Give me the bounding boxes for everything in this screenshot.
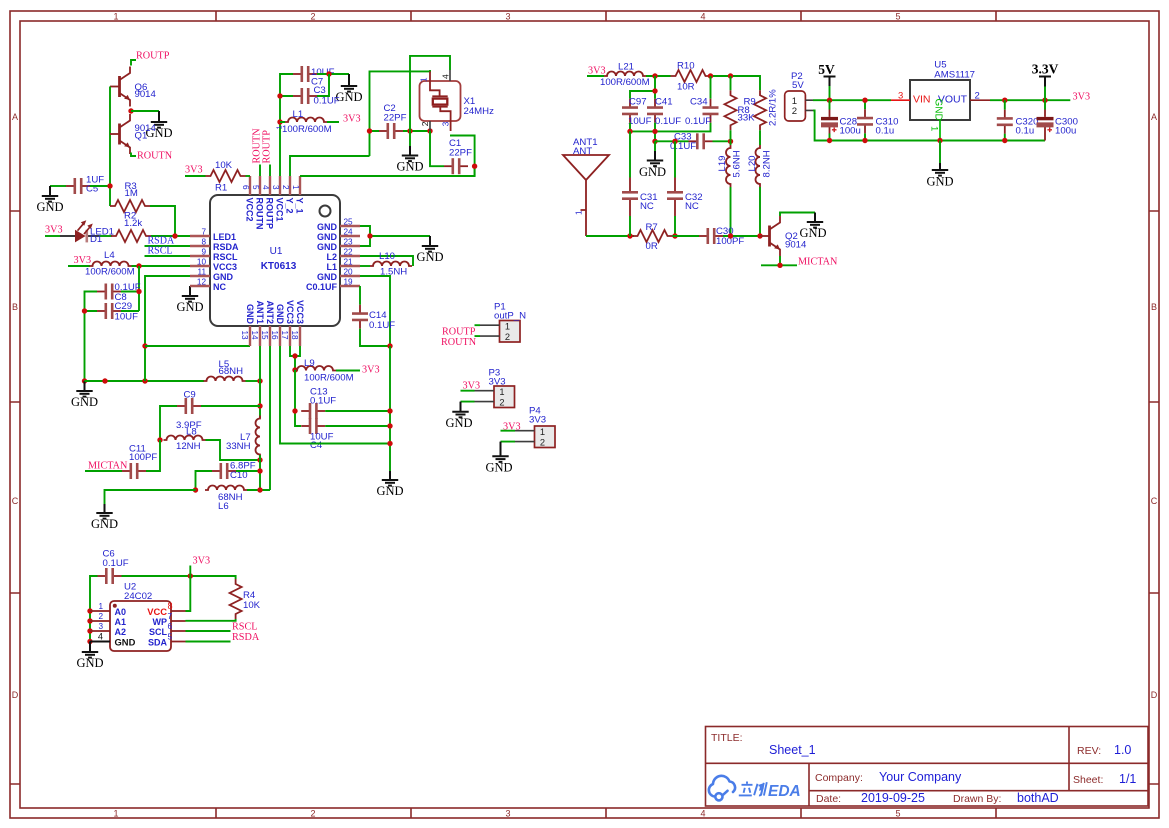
svg-text:100R/600M: 100R/600M bbox=[85, 267, 135, 278]
svg-text:5V: 5V bbox=[818, 62, 835, 77]
ground bbox=[91, 504, 118, 531]
wire L9 junction down to C13/C4 bbox=[295, 370, 301, 426]
resistor R7 0R bbox=[633, 222, 673, 252]
svg-text:NC: NC bbox=[640, 201, 654, 212]
svg-text:GND: GND bbox=[416, 250, 443, 264]
capacitor C9 3.9PF bbox=[176, 390, 202, 432]
wire ANT to R7 row bbox=[586, 235, 634, 237]
svg-text:GND: GND bbox=[76, 656, 103, 670]
svg-text:5: 5 bbox=[895, 12, 900, 22]
node L7 bottom bbox=[257, 457, 262, 462]
node C10 right bbox=[257, 468, 262, 473]
svg-text:ROUTN: ROUTN bbox=[137, 151, 173, 162]
wire L6 right bbox=[247, 489, 270, 491]
svg-text:10K: 10K bbox=[243, 600, 261, 611]
svg-text:GND: GND bbox=[317, 232, 338, 242]
svg-text:4: 4 bbox=[98, 632, 103, 642]
inductor L6 68NH bbox=[205, 486, 247, 513]
wire C32 bottom bbox=[674, 216, 676, 236]
svg-text:33NH: 33NH bbox=[226, 441, 251, 452]
resistor R8 33K bbox=[725, 90, 756, 130]
capacitor C310 0.1u bbox=[857, 100, 898, 140]
ground U2 bbox=[76, 642, 103, 671]
capacitor C3 0.1UF bbox=[293, 85, 340, 107]
svg-text:ANT2: ANT2 bbox=[265, 300, 275, 324]
wire right rail down bbox=[389, 346, 391, 471]
svg-text:6: 6 bbox=[241, 185, 250, 190]
inductor L21 100R/600M bbox=[600, 62, 650, 89]
wire P2 pin2 to gnd rail bbox=[813, 110, 1045, 140]
ground bbox=[335, 74, 362, 104]
svg-text:3V3: 3V3 bbox=[1073, 92, 1091, 103]
wire C5 right bbox=[90, 185, 110, 187]
capacitor C30 100PF bbox=[699, 226, 744, 247]
svg-text:10UF: 10UF bbox=[628, 116, 652, 127]
svg-text:C3: C3 bbox=[314, 85, 326, 96]
svg-text:GND: GND bbox=[317, 272, 338, 282]
logo 立创EDA bbox=[709, 776, 735, 801]
power symbol 5V bbox=[818, 62, 835, 100]
net label ROUTN (P1) bbox=[441, 337, 477, 348]
svg-text:L2: L2 bbox=[326, 252, 337, 262]
svg-text:SCL: SCL bbox=[149, 627, 168, 637]
node C13 left bbox=[292, 408, 297, 413]
inductor L5 68NH bbox=[204, 359, 246, 381]
wire C2 row bbox=[370, 130, 431, 132]
node C41 bottom bbox=[652, 129, 657, 134]
svg-text:RSCL: RSCL bbox=[148, 246, 173, 257]
svg-text:10K: 10K bbox=[215, 160, 233, 171]
svg-text:15: 15 bbox=[260, 331, 269, 341]
node R8 top bbox=[728, 73, 733, 78]
capacitor C29 10UF bbox=[97, 301, 138, 323]
node pin17/18 bbox=[292, 353, 297, 358]
wire pin19 to C14 bbox=[359, 286, 361, 305]
node C3 left bbox=[277, 93, 282, 98]
node pin24 bbox=[367, 233, 372, 238]
wire pin14 ANT1 vertical bbox=[259, 346, 261, 418]
node 3V3/pin8 bbox=[188, 573, 193, 578]
svg-text:7: 7 bbox=[168, 612, 173, 621]
node C8 right bbox=[136, 289, 141, 294]
power flag 3V3 (R1) bbox=[185, 165, 206, 177]
power flag 3V3 (L21) bbox=[587, 66, 606, 77]
svg-text:11: 11 bbox=[198, 268, 207, 277]
svg-text:GND: GND bbox=[36, 200, 63, 214]
wire ANT1 rail down bbox=[259, 455, 261, 490]
node U2 pin3 bbox=[87, 628, 92, 633]
svg-text:1.2k: 1.2k bbox=[124, 218, 142, 229]
svg-text:2: 2 bbox=[792, 106, 797, 117]
svg-text:3: 3 bbox=[271, 185, 280, 190]
node X1 pin2 bbox=[427, 128, 432, 133]
IC U1 KT0613 bbox=[190, 176, 360, 346]
svg-text:9014: 9014 bbox=[785, 240, 807, 251]
inductor L9 100R/600M bbox=[294, 358, 354, 384]
node C310 top bbox=[862, 98, 867, 103]
net label ROUTP (P1) bbox=[442, 327, 476, 338]
svg-text:0.1u: 0.1u bbox=[876, 126, 895, 137]
svg-text:C97: C97 bbox=[629, 97, 647, 108]
svg-text:8.2NH: 8.2NH bbox=[762, 150, 773, 177]
svg-text:TITLE:: TITLE: bbox=[711, 732, 743, 744]
wire pin16 gnd row bbox=[280, 346, 390, 444]
net label ROUTP bbox=[131, 51, 170, 66]
ground U5 bbox=[926, 141, 953, 189]
svg-text:C41: C41 bbox=[655, 97, 673, 108]
svg-text:2: 2 bbox=[281, 185, 290, 190]
wire L8 right to L7 bottom bbox=[206, 440, 261, 460]
svg-text:ROUTN: ROUTN bbox=[255, 198, 265, 230]
svg-text:GND: GND bbox=[933, 99, 944, 121]
svg-text:L9: L9 bbox=[304, 358, 315, 369]
svg-text:1: 1 bbox=[291, 185, 300, 190]
svg-text:0R: 0R bbox=[646, 241, 658, 252]
wire C10 right bbox=[236, 470, 260, 472]
node L20 bottom bbox=[757, 233, 762, 238]
svg-text:19: 19 bbox=[344, 278, 354, 287]
svg-text:WP: WP bbox=[153, 617, 168, 627]
ground P3 bbox=[445, 402, 472, 430]
svg-text:KT0613: KT0613 bbox=[261, 261, 297, 272]
capacitor C10 6.8PF bbox=[212, 461, 256, 482]
svg-text:3: 3 bbox=[505, 12, 510, 22]
wire C33 right bbox=[713, 140, 731, 142]
node L5/ANT1 bbox=[257, 378, 262, 383]
antenna ANT1 bbox=[563, 137, 609, 236]
svg-text:U1: U1 bbox=[270, 246, 283, 257]
svg-text:2019-09-25: 2019-09-25 bbox=[861, 791, 925, 805]
svg-text:3: 3 bbox=[98, 622, 103, 631]
svg-text:1: 1 bbox=[113, 809, 118, 819]
wire pin20 bbox=[360, 276, 390, 346]
wire pins 25/24/23 to gnd bbox=[360, 226, 430, 246]
transistor Q1 bbox=[110, 114, 157, 154]
svg-text:RSCL: RSCL bbox=[213, 252, 238, 262]
IC U2 24C02 bbox=[90, 582, 186, 652]
wire C7 right to gnd bbox=[317, 73, 349, 75]
inductor L8 12NH bbox=[164, 427, 206, 453]
wire pin15 ANT2 vertical bbox=[269, 346, 271, 490]
svg-text:1/1: 1/1 bbox=[1119, 772, 1136, 786]
svg-text:GND: GND bbox=[376, 484, 403, 498]
svg-text:2: 2 bbox=[310, 809, 315, 819]
svg-text:24C02: 24C02 bbox=[124, 591, 152, 602]
svg-text:3: 3 bbox=[441, 121, 450, 126]
wire X1 pin2 to C1 left bbox=[430, 131, 444, 166]
svg-text:100u: 100u bbox=[1055, 126, 1076, 137]
svg-text:33K: 33K bbox=[738, 113, 756, 124]
svg-text:VCC1: VCC1 bbox=[275, 198, 285, 222]
wire C31 top bbox=[629, 131, 631, 177]
wire Q2 collector to gnd bbox=[780, 213, 815, 217]
connector P2 5V bbox=[785, 71, 813, 121]
node C2 right bbox=[407, 128, 412, 133]
svg-text:A0: A0 bbox=[115, 607, 127, 617]
svg-text:ROUTP: ROUTP bbox=[442, 327, 476, 338]
net label RSCL (U2) bbox=[186, 622, 258, 633]
node C2 left bbox=[367, 128, 372, 133]
wire L19 bottom bbox=[730, 187, 732, 236]
node C32 top bbox=[672, 139, 677, 144]
ground bbox=[799, 213, 826, 241]
svg-text:bothAD: bothAD bbox=[1017, 791, 1059, 805]
capacitor C6 0.1UF bbox=[98, 549, 129, 585]
wire R9 bottom to L20 bbox=[759, 130, 761, 145]
node Q6 emitter / Q1 collector bbox=[128, 108, 133, 113]
capacitor C32 NC bbox=[667, 178, 703, 217]
node C33 right bbox=[728, 139, 733, 144]
power flag 3V3 (U2) bbox=[190, 556, 210, 577]
svg-text:10R: 10R bbox=[677, 82, 695, 93]
svg-text:5.6NH: 5.6NH bbox=[732, 150, 743, 177]
svg-text:GND: GND bbox=[317, 222, 338, 232]
svg-text:GND: GND bbox=[396, 160, 423, 174]
connector P4 3V3 bbox=[501, 406, 556, 448]
svg-text:12NH: 12NH bbox=[176, 441, 201, 452]
svg-text:0.1u: 0.1u bbox=[1016, 126, 1035, 137]
svg-text:9014: 9014 bbox=[135, 89, 157, 100]
wire bottom row of caps bbox=[630, 123, 711, 142]
power flag 3V3 (P4) bbox=[503, 422, 521, 433]
resistor R9 2.2R/1% bbox=[744, 89, 779, 131]
wire pin2 Y_2 bbox=[290, 156, 370, 176]
wire C6 rail to R4 bbox=[122, 576, 236, 579]
wire L4 to pin10 bbox=[132, 265, 191, 267]
capacitor C320 0.1u bbox=[997, 100, 1039, 140]
node pin7 junction bbox=[172, 233, 177, 238]
capacitor C41 0.1UF bbox=[647, 97, 681, 128]
resistor R3 1M bbox=[110, 181, 150, 212]
capacitor C34 0.1UF bbox=[685, 76, 719, 127]
wire emitter junction to ground bbox=[131, 110, 159, 112]
ground bbox=[145, 111, 172, 140]
resistor R1 10K bbox=[206, 160, 246, 194]
wire C2 left loop to X1 pin1 bbox=[370, 70, 431, 156]
svg-text:1: 1 bbox=[113, 12, 118, 22]
inductor L10 1.5NH bbox=[370, 251, 412, 278]
svg-text:GND: GND bbox=[485, 461, 512, 475]
ground pin12 bbox=[176, 286, 203, 314]
svg-text:7: 7 bbox=[201, 228, 206, 237]
transistor Q6 bbox=[110, 67, 157, 107]
svg-text:5V: 5V bbox=[792, 80, 804, 91]
node C41 top bbox=[652, 88, 657, 93]
svg-text:16: 16 bbox=[270, 331, 279, 341]
svg-text:SDA: SDA bbox=[148, 638, 168, 648]
svg-text:VCC3: VCC3 bbox=[213, 262, 237, 272]
power symbol 3.3V bbox=[1032, 62, 1059, 101]
svg-text:R9: R9 bbox=[744, 97, 756, 108]
node C320 top bbox=[1002, 98, 1007, 103]
power flag 3V3 (L4) bbox=[68, 255, 91, 266]
node U5 gnd bbox=[937, 138, 942, 143]
wire pin11 GND net bbox=[145, 276, 190, 381]
svg-text:R7: R7 bbox=[646, 222, 658, 233]
svg-text:0.1UF: 0.1UF bbox=[369, 320, 395, 331]
node C4 right bbox=[387, 423, 392, 428]
svg-text:VCC: VCC bbox=[147, 606, 167, 617]
node pin13 junction bbox=[142, 343, 147, 348]
svg-text:21: 21 bbox=[344, 258, 354, 267]
svg-text:C0.1UF: C0.1UF bbox=[306, 282, 338, 292]
svg-text:GND: GND bbox=[91, 517, 118, 531]
wire pin1 Y_1 bbox=[300, 166, 475, 176]
wire C41 branch bbox=[630, 76, 655, 99]
net label ROUTN bbox=[131, 151, 173, 162]
svg-text:RSCL: RSCL bbox=[232, 622, 257, 633]
capacitor C97 10UF bbox=[622, 97, 652, 128]
svg-text:outP_N: outP_N bbox=[494, 311, 526, 322]
wire P2 pin1 to VIN bbox=[813, 99, 891, 101]
svg-text:Q1: Q1 bbox=[135, 131, 148, 142]
node 3.3V bbox=[1042, 98, 1047, 103]
node L9 left bbox=[292, 367, 297, 372]
svg-text:Sheet_1: Sheet_1 bbox=[769, 743, 816, 757]
ground bbox=[36, 186, 63, 214]
svg-text:L6: L6 bbox=[218, 501, 229, 512]
svg-text:ROUTP: ROUTP bbox=[265, 198, 275, 230]
svg-text:GND: GND bbox=[799, 226, 826, 240]
wire R7 to C30 bbox=[673, 235, 700, 237]
svg-text:3: 3 bbox=[898, 91, 903, 102]
svg-text:3V3: 3V3 bbox=[193, 556, 211, 567]
node U2 pin1 bbox=[87, 608, 92, 613]
node L21/R10 bbox=[652, 73, 657, 78]
svg-text:100PF: 100PF bbox=[129, 452, 157, 463]
svg-text:0.1UF: 0.1UF bbox=[310, 396, 336, 407]
svg-text:REV:: REV: bbox=[1077, 745, 1101, 757]
svg-text:14: 14 bbox=[250, 331, 259, 341]
svg-text:2: 2 bbox=[420, 121, 430, 126]
svg-text:VIN: VIN bbox=[913, 94, 931, 106]
wire C8/C29 left rail bbox=[85, 292, 98, 382]
TITLEBLOCK bbox=[706, 727, 1149, 807]
crystal X1 24MHz bbox=[419, 70, 494, 131]
wire L9 to 3V3 bbox=[336, 365, 380, 376]
svg-text:100R/600M: 100R/600M bbox=[282, 124, 332, 135]
wire R8 top lead bbox=[730, 76, 732, 90]
svg-text:D1: D1 bbox=[90, 234, 102, 245]
svg-text:L19: L19 bbox=[717, 155, 728, 171]
capacitor C13 0.1UF bbox=[301, 387, 336, 420]
net label RSCL (pin9) bbox=[145, 246, 191, 257]
svg-text:2.2R/1%: 2.2R/1% bbox=[768, 89, 779, 126]
svg-text:1: 1 bbox=[792, 96, 797, 107]
svg-text:A: A bbox=[1151, 112, 1157, 122]
capacitor C4 10UF bbox=[301, 418, 333, 451]
node L8 left bbox=[157, 437, 162, 442]
wire C6 left rail bbox=[90, 576, 98, 642]
svg-text:4: 4 bbox=[261, 185, 270, 190]
svg-text:0.1UF: 0.1UF bbox=[314, 96, 340, 107]
svg-text:Sheet:: Sheet: bbox=[1073, 774, 1103, 786]
svg-text:2: 2 bbox=[310, 12, 315, 22]
net label MICTAN (C11) bbox=[85, 461, 128, 472]
svg-text:C: C bbox=[12, 496, 19, 506]
svg-text:NC: NC bbox=[685, 201, 699, 212]
svg-text:L1: L1 bbox=[293, 109, 304, 120]
ground right rail bbox=[376, 471, 403, 498]
svg-text:C9: C9 bbox=[184, 390, 196, 401]
wire C3 leads bbox=[280, 74, 329, 96]
svg-text:1: 1 bbox=[575, 210, 584, 215]
svg-text:D: D bbox=[12, 690, 19, 700]
ground under C41/C33 bbox=[639, 141, 666, 179]
svg-text:3V3: 3V3 bbox=[362, 365, 380, 376]
net label RSDA (U2) bbox=[186, 632, 260, 643]
svg-text:5: 5 bbox=[251, 185, 260, 190]
net label ROUTP (pin4) bbox=[262, 130, 273, 176]
capacitor C31 NC bbox=[622, 178, 658, 217]
svg-text:6: 6 bbox=[168, 622, 173, 631]
wire C4 right bbox=[325, 425, 390, 427]
wire L21 to R10 bbox=[646, 75, 671, 77]
svg-text:ANT1: ANT1 bbox=[255, 300, 265, 324]
svg-text:D: D bbox=[1151, 690, 1158, 700]
svg-text:1M: 1M bbox=[125, 188, 138, 199]
capacitor C7 10UF bbox=[293, 66, 335, 88]
svg-text:LED1: LED1 bbox=[213, 232, 236, 242]
node C33 left bbox=[652, 139, 657, 144]
svg-text:ROUTN: ROUTN bbox=[441, 337, 477, 348]
svg-text:Company:: Company: bbox=[815, 772, 863, 784]
resistor R2 1.2k bbox=[111, 211, 151, 243]
svg-text:3V3: 3V3 bbox=[463, 381, 481, 392]
svg-text:A2: A2 bbox=[115, 627, 127, 637]
wire C33 left bbox=[655, 140, 689, 142]
svg-text:1: 1 bbox=[98, 602, 103, 611]
node C320 bottom bbox=[1002, 138, 1007, 143]
wire VCC3 vertical to C8/C29 bbox=[121, 266, 139, 311]
capacitor C11 100PF bbox=[122, 444, 157, 480]
svg-text:9: 9 bbox=[201, 248, 206, 257]
svg-text:B: B bbox=[12, 302, 18, 312]
capacitor C2 22PF bbox=[379, 103, 407, 139]
wire C2 right loop to X1 pin4 bbox=[410, 56, 450, 131]
wire VOUT rail bbox=[990, 92, 1090, 103]
svg-text:VCC3: VCC3 bbox=[295, 300, 305, 324]
capacitor C300 100u bbox=[1037, 100, 1078, 140]
svg-text:22PF: 22PF bbox=[449, 148, 472, 159]
node C310 bottom bbox=[862, 138, 867, 143]
svg-text:GND: GND bbox=[115, 637, 136, 648]
connector P3 3V3 bbox=[461, 368, 515, 408]
svg-text:L20: L20 bbox=[747, 155, 758, 171]
svg-text:L8: L8 bbox=[186, 427, 197, 438]
wire X1 pin3 to C1 right bbox=[450, 136, 475, 177]
inductor L4 100R/600M bbox=[85, 250, 135, 278]
wire pin13 bbox=[145, 345, 250, 347]
wire U2 pin8 to 3V3 rail bbox=[186, 576, 191, 611]
wire C9 right bbox=[201, 405, 260, 407]
wire L19 top lead bbox=[730, 141, 732, 145]
node U2 pin2 bbox=[87, 618, 92, 623]
wire C30 right to Q2 base bbox=[723, 235, 760, 237]
resistor R4 10K bbox=[230, 579, 261, 619]
svg-text:3.3V: 3.3V bbox=[1032, 62, 1059, 77]
resistor R10 10R bbox=[671, 61, 711, 93]
node C9 right bbox=[257, 403, 262, 408]
svg-text:23: 23 bbox=[344, 238, 354, 247]
svg-text:L21: L21 bbox=[618, 62, 634, 73]
svg-text:5: 5 bbox=[168, 633, 173, 642]
power flag 3V3 bbox=[45, 225, 63, 237]
svg-text:RSDA: RSDA bbox=[232, 632, 260, 643]
svg-text:R1: R1 bbox=[215, 183, 227, 194]
svg-text:VCC2: VCC2 bbox=[245, 198, 255, 222]
svg-text:10UF: 10UF bbox=[115, 312, 139, 323]
